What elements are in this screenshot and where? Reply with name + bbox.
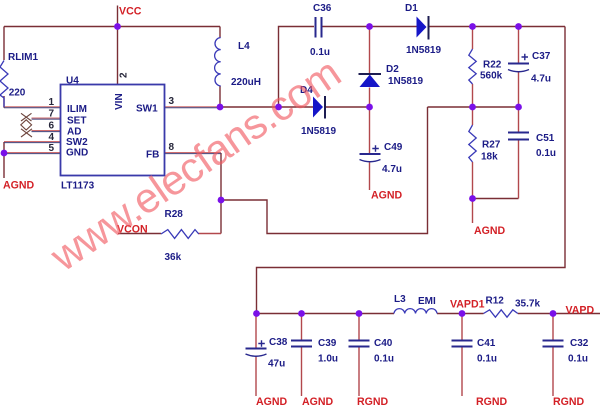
svg-text:0.1u: 0.1u (536, 148, 556, 159)
svg-text:R12: R12 (486, 296, 505, 307)
svg-text:www.elecfans.com: www.elecfans.com (41, 49, 348, 281)
svg-text:ILIM: ILIM (67, 104, 87, 115)
svg-text:VIN: VIN (114, 93, 125, 110)
svg-text:C38: C38 (269, 337, 288, 348)
svg-text:VCC: VCC (119, 6, 142, 18)
svg-text:EMI: EMI (418, 296, 436, 307)
svg-text:AGND: AGND (371, 190, 403, 202)
svg-text:220uH: 220uH (231, 77, 261, 88)
svg-text:5: 5 (49, 143, 55, 154)
svg-text:36k: 36k (165, 252, 182, 263)
svg-text:AGND: AGND (474, 225, 506, 237)
svg-text:GND: GND (66, 148, 88, 159)
svg-text:VAPD: VAPD (566, 304, 595, 316)
svg-text:560k: 560k (480, 71, 503, 82)
svg-text:C36: C36 (313, 3, 332, 14)
svg-text:0.1u: 0.1u (374, 354, 394, 365)
svg-text:C49: C49 (384, 142, 403, 153)
svg-text:D1: D1 (405, 3, 418, 14)
svg-text:7: 7 (49, 109, 55, 120)
svg-text:SW2: SW2 (66, 137, 88, 148)
svg-text:RGND: RGND (476, 396, 508, 408)
svg-text:0.1u: 0.1u (477, 354, 497, 365)
svg-text:RLIM1: RLIM1 (8, 52, 38, 63)
svg-text:C32: C32 (570, 338, 589, 349)
svg-text:4.7u: 4.7u (531, 74, 551, 85)
svg-text:1N5819: 1N5819 (301, 126, 336, 137)
svg-text:L3: L3 (394, 294, 406, 305)
svg-text:C41: C41 (477, 338, 496, 349)
svg-text:1: 1 (49, 97, 55, 108)
svg-text:R27: R27 (482, 140, 501, 151)
svg-text:4: 4 (49, 132, 55, 143)
svg-text:1N5819: 1N5819 (406, 45, 441, 56)
svg-text:SET: SET (67, 116, 86, 127)
svg-text:C39: C39 (318, 338, 337, 349)
svg-text:D2: D2 (386, 64, 399, 75)
svg-text:AD: AD (67, 127, 81, 138)
svg-text:RGND: RGND (357, 396, 389, 408)
svg-text:FB: FB (146, 150, 159, 161)
svg-text:R22: R22 (483, 60, 502, 71)
svg-text:C37: C37 (532, 51, 551, 62)
svg-text:0.1u: 0.1u (568, 354, 588, 365)
svg-text:C51: C51 (536, 133, 555, 144)
svg-text:4.7u: 4.7u (382, 164, 402, 175)
svg-text:L4: L4 (238, 41, 250, 52)
svg-text:U4: U4 (66, 76, 79, 87)
svg-text:AGND: AGND (302, 396, 334, 408)
svg-text:LT1173: LT1173 (61, 181, 95, 192)
svg-text:AGND: AGND (3, 180, 35, 192)
svg-text:SW1: SW1 (136, 104, 158, 115)
svg-text:RGND: RGND (553, 396, 585, 408)
svg-text:18k: 18k (481, 152, 498, 163)
svg-text:47u: 47u (268, 359, 285, 370)
svg-text:AGND: AGND (256, 396, 288, 408)
svg-text:VAPD1: VAPD1 (450, 299, 485, 311)
svg-text:2: 2 (119, 72, 130, 78)
svg-text:220: 220 (9, 88, 26, 99)
svg-text:1N5819: 1N5819 (388, 76, 423, 87)
svg-text:35.7k: 35.7k (515, 299, 540, 310)
svg-text:6: 6 (49, 121, 55, 132)
svg-text:C40: C40 (374, 338, 393, 349)
svg-text:1.0u: 1.0u (318, 354, 338, 365)
svg-text:3: 3 (169, 96, 175, 107)
